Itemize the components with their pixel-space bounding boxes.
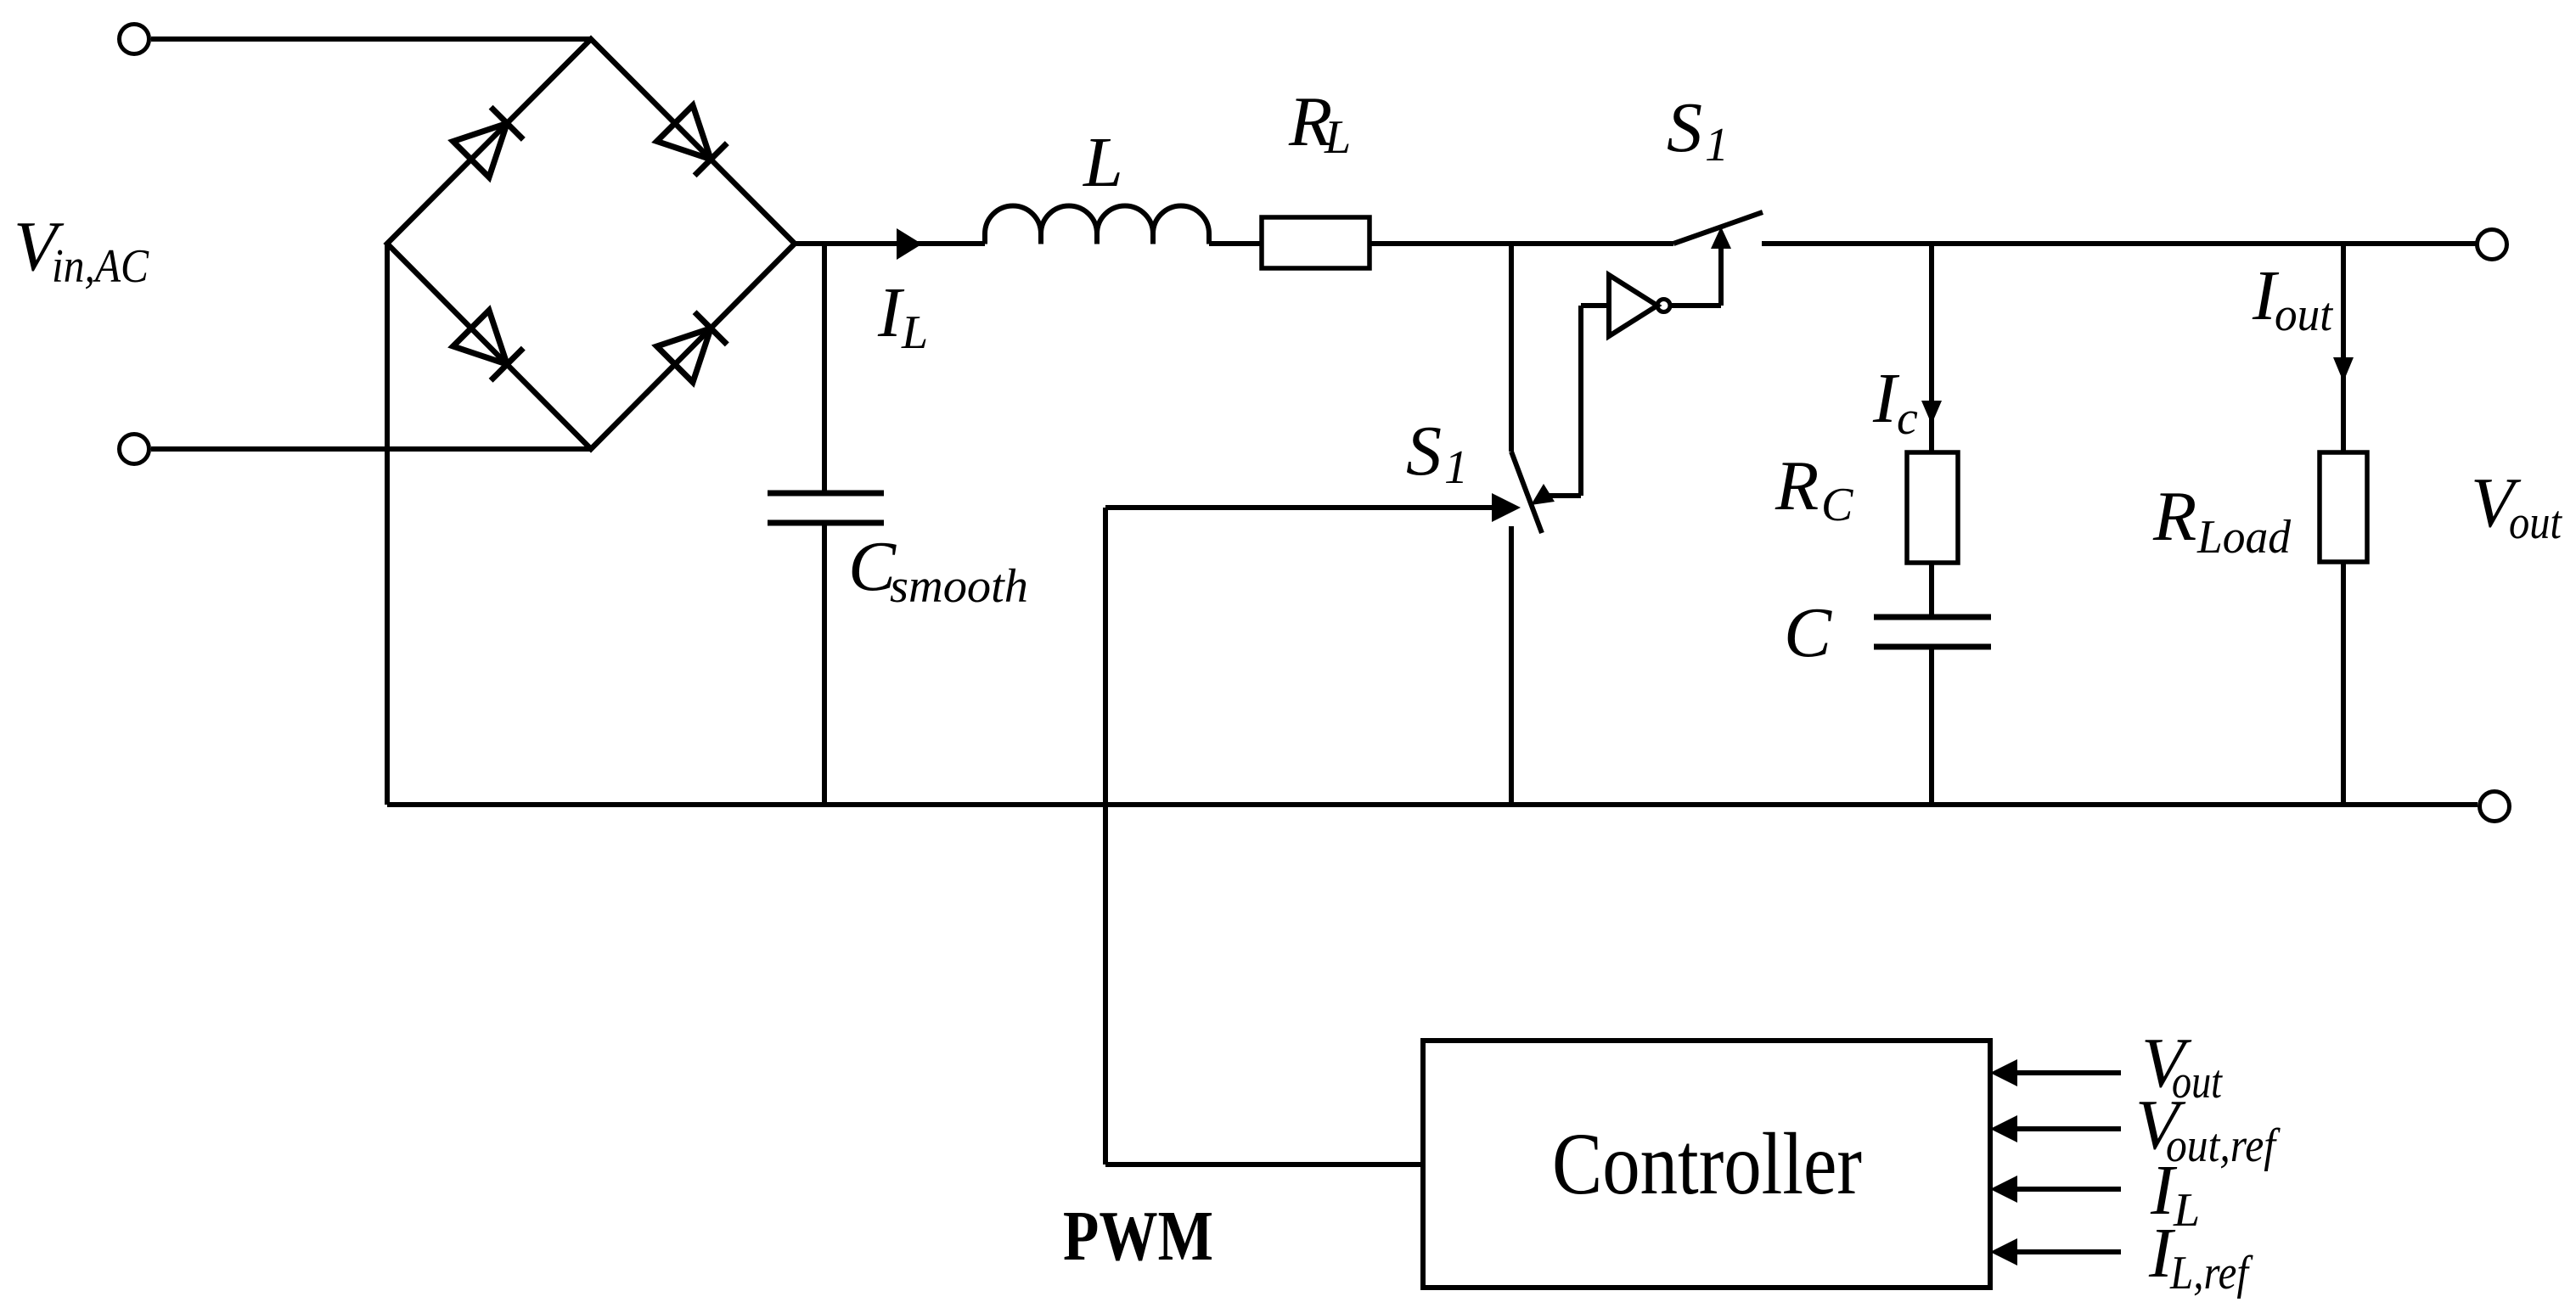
switch S1 shunt blade <box>1511 452 1542 533</box>
wire C bottom <box>1929 647 1934 805</box>
svg-text:out,ref: out,ref <box>2166 1120 2281 1172</box>
svg-text:c: c <box>1897 392 1918 445</box>
arrow Iout current <box>2333 357 2354 382</box>
arrow gate drive to S1 series <box>1711 227 1731 249</box>
wire inductor to RL <box>1209 241 1262 246</box>
wire top input <box>151 36 591 42</box>
wire Csmooth bottom <box>822 523 827 805</box>
arrow controller input Vout <box>1990 1059 2017 1086</box>
arrow Ic current <box>1921 401 1942 424</box>
diode D3 lower-left <box>453 311 524 381</box>
wire RLoad branch top <box>2341 244 2346 452</box>
inductor L <box>985 206 1209 244</box>
arrow IL current <box>897 228 922 260</box>
svg-text:in,AC: in,AC <box>52 240 149 293</box>
resistor RLoad <box>2320 452 2367 562</box>
svg-text:L: L <box>1083 123 1123 202</box>
diode D2 upper-right <box>657 105 728 176</box>
arrow controller input IL,ref <box>1990 1238 2017 1266</box>
svg-text:smooth: smooth <box>890 560 1028 613</box>
arrow controller input Vout,ref <box>1990 1115 2017 1142</box>
wire PWM vertical <box>1103 508 1108 1165</box>
wire bottom rail <box>387 802 2478 807</box>
wire Csmooth top <box>822 244 827 493</box>
wire RLoad bottom <box>2341 562 2346 805</box>
capacitor Csmooth <box>768 493 884 523</box>
svg-text:1: 1 <box>1705 119 1729 171</box>
inverter U1 <box>1609 275 1657 336</box>
svg-text:S: S <box>1406 412 1442 491</box>
wire inverter output up <box>1718 249 1724 306</box>
svg-text:out: out <box>2509 497 2562 549</box>
resistor RL <box>1262 217 1370 268</box>
arrow PWM to S1 shunt <box>1492 493 1521 522</box>
arrow gate node to S1 shunt blade <box>1531 484 1555 505</box>
wire RC branch top <box>1929 244 1934 452</box>
svg-text:1: 1 <box>1444 441 1468 494</box>
wire inverter output <box>1670 303 1721 308</box>
diode D4 lower-right <box>657 312 728 383</box>
wire inverter input <box>1581 303 1609 308</box>
terminal Vout bottom-right <box>2480 792 2510 822</box>
switch S1 series blade <box>1673 212 1763 244</box>
svg-text:Controller: Controller <box>1552 1115 1862 1213</box>
wire PWM control horizontal <box>1105 505 1492 510</box>
svg-text:L: L <box>1324 111 1351 164</box>
controller box <box>1423 1041 1990 1288</box>
wire inverter input horizontal <box>1547 493 1581 498</box>
capacitor C <box>1874 617 1991 647</box>
svg-text:PWM: PWM <box>1063 1197 1213 1276</box>
svg-text:C: C <box>1784 593 1832 672</box>
wire S1 shunt top contact <box>1509 244 1514 452</box>
svg-text:R: R <box>2152 477 2196 556</box>
svg-text:Load: Load <box>2196 511 2292 564</box>
terminal Vin top-left <box>120 25 149 54</box>
resistor RC <box>1907 452 1958 563</box>
wire inverter input down <box>1578 306 1583 496</box>
wire RC to C <box>1929 563 1934 617</box>
svg-text:S: S <box>1667 88 1702 167</box>
svg-text:L,ref: L,ref <box>2169 1247 2253 1299</box>
wire bottom input <box>151 446 591 452</box>
wire rail after switch <box>1762 241 2476 246</box>
terminal Vout top-right <box>2478 230 2507 260</box>
diode D1 upper-left <box>453 107 524 177</box>
arrow controller input IL <box>1990 1176 2017 1203</box>
svg-text:out: out <box>2275 289 2333 341</box>
svg-text:L: L <box>2173 1184 2200 1237</box>
wire PWM to controller <box>1105 1162 1423 1167</box>
svg-text:C: C <box>1821 479 1853 531</box>
diode bridge frame <box>387 39 795 449</box>
wire S1 shunt bottom contact <box>1509 526 1514 805</box>
svg-text:L: L <box>901 306 928 359</box>
terminal Vin bottom-left <box>120 435 149 464</box>
wire rail bridge to inductor <box>795 241 985 246</box>
svg-text:R: R <box>1775 446 1819 525</box>
wire RL to switch S1 <box>1370 241 1673 246</box>
wire bridge left vertex to bottom rail <box>385 244 390 805</box>
svg-text:out: out <box>2172 1056 2223 1108</box>
